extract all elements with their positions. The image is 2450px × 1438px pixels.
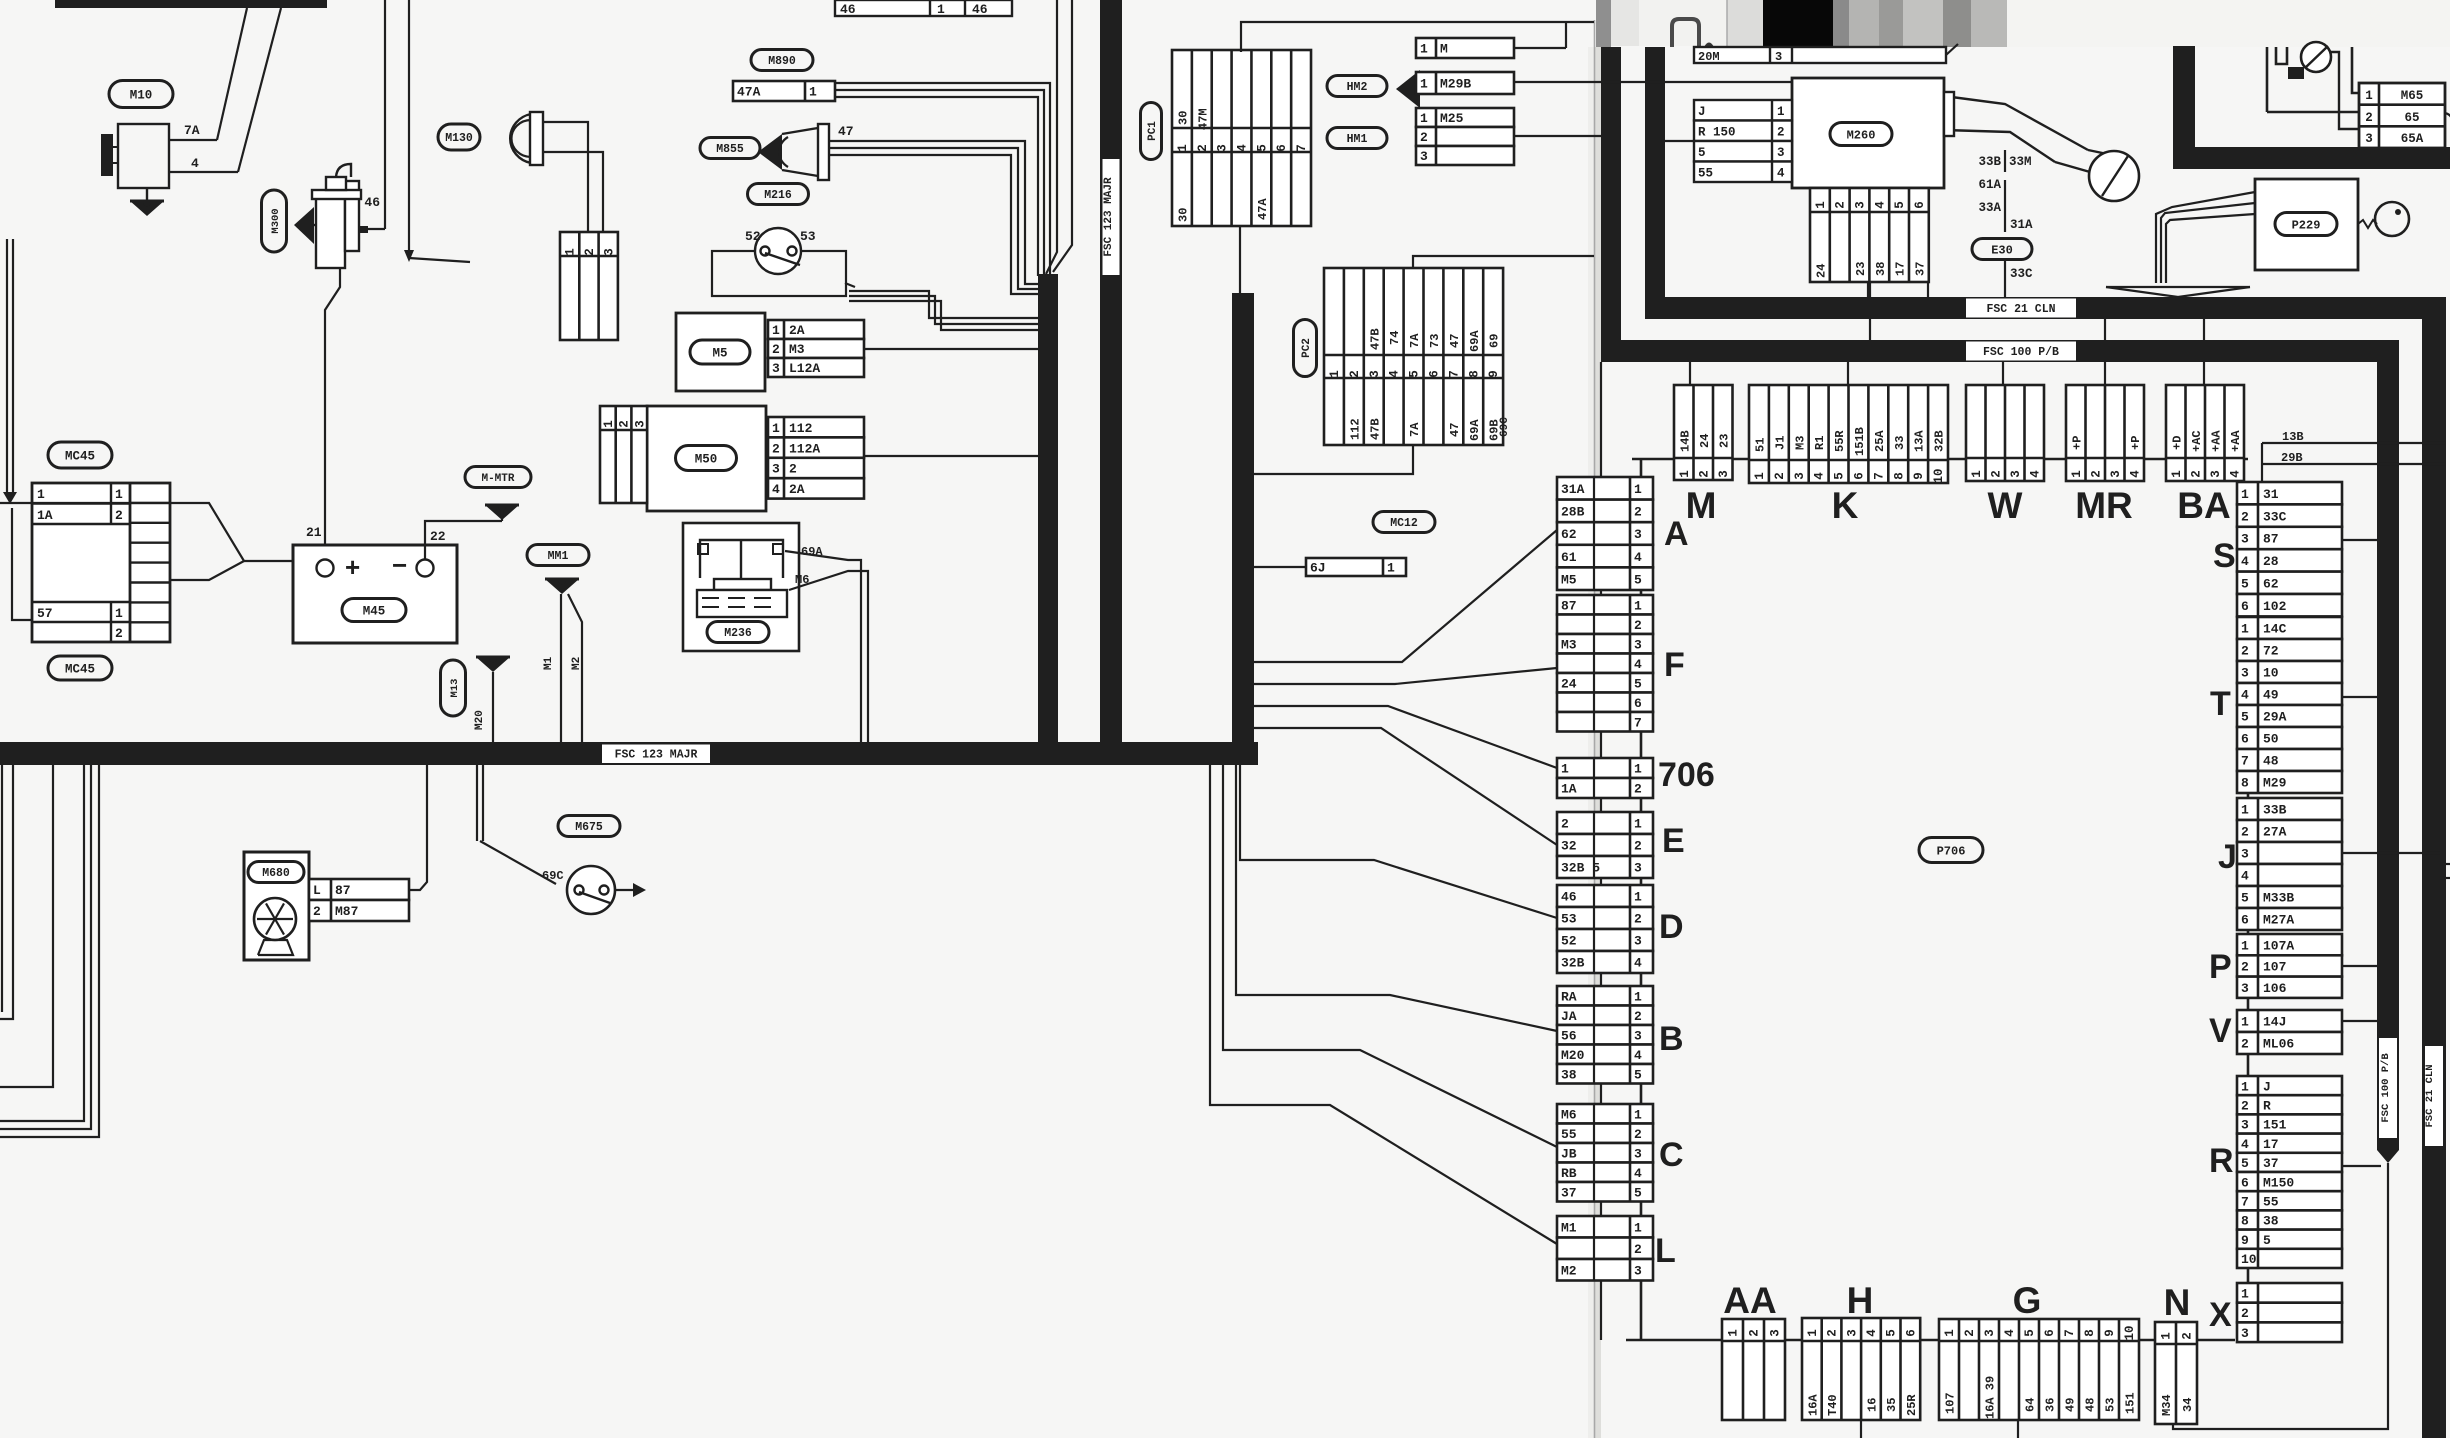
svg-text:4: 4 [2241, 869, 2249, 884]
svg-text:R: R [2263, 1098, 2271, 1113]
svg-text:J: J [2218, 838, 2237, 876]
svg-text:33B: 33B [2263, 803, 2287, 818]
svg-text:1: 1 [2241, 1015, 2249, 1030]
svg-text:31A: 31A [1561, 482, 1585, 497]
svg-text:10: 10 [2263, 666, 2279, 681]
svg-text:1: 1 [1634, 1220, 1642, 1235]
svg-text:29B: 29B [2281, 451, 2303, 465]
svg-text:1: 1 [2160, 1332, 2174, 1340]
svg-text:4: 4 [1777, 166, 1785, 180]
svg-text:4: 4 [1634, 550, 1642, 565]
svg-text:M5: M5 [712, 347, 727, 361]
svg-text:55: 55 [1561, 1127, 1577, 1142]
svg-text:R: R [2209, 1142, 2234, 1180]
svg-text:3: 3 [1216, 144, 1230, 152]
svg-text:151: 151 [2263, 1118, 2287, 1133]
svg-text:5: 5 [1634, 676, 1642, 691]
svg-text:61: 61 [1561, 550, 1577, 565]
svg-text:P: P [2209, 948, 2232, 986]
svg-text:55R: 55R [1833, 430, 1847, 452]
svg-text:6: 6 [2241, 732, 2249, 747]
svg-text:4: 4 [1865, 1329, 1879, 1337]
svg-text:28: 28 [2263, 554, 2279, 569]
svg-text:5: 5 [2241, 1156, 2249, 1171]
svg-text:52: 52 [1561, 934, 1577, 949]
svg-text:33: 33 [1893, 436, 1907, 450]
svg-text:M890: M890 [768, 55, 796, 68]
svg-text:N: N [2164, 1282, 2191, 1323]
svg-text:6: 6 [2241, 1175, 2249, 1190]
svg-text:4: 4 [2241, 554, 2249, 569]
svg-text:M25: M25 [1440, 111, 1464, 126]
svg-text:T: T [2210, 685, 2231, 723]
svg-text:1: 1 [1634, 989, 1642, 1004]
svg-text:M29B: M29B [1440, 77, 1471, 92]
svg-text:3: 3 [1634, 934, 1642, 949]
svg-text:4: 4 [1873, 201, 1887, 209]
svg-text:1: 1 [2241, 1287, 2249, 1302]
svg-text:X: X [2209, 1296, 2232, 1334]
svg-text:2: 2 [1834, 201, 1848, 209]
svg-text:2A: 2A [789, 323, 805, 338]
svg-text:M300: M300 [270, 208, 282, 233]
svg-text:1: 1 [1753, 472, 1767, 480]
svg-text:1: 1 [2241, 803, 2249, 818]
svg-text:7: 7 [1447, 370, 1461, 378]
svg-text:106: 106 [2263, 981, 2287, 996]
svg-text:34: 34 [2181, 1398, 2195, 1412]
svg-text:74: 74 [1388, 331, 1402, 345]
svg-text:AA: AA [1723, 1280, 1776, 1321]
svg-text:2: 2 [1348, 370, 1362, 378]
svg-text:14B: 14B [1678, 430, 1692, 452]
svg-text:5: 5 [2241, 891, 2249, 906]
svg-text:4: 4 [1634, 956, 1642, 971]
svg-text:FSC 123 MAJR: FSC 123 MAJR [1103, 177, 1115, 257]
svg-text:M1: M1 [1561, 1220, 1577, 1235]
svg-text:V: V [2209, 1012, 2232, 1050]
svg-text:8: 8 [2241, 1214, 2249, 1229]
svg-text:L: L [1655, 1232, 1676, 1270]
svg-text:2: 2 [618, 420, 632, 428]
svg-text:3: 3 [2241, 532, 2249, 547]
svg-text:6J: 6J [1310, 561, 1326, 576]
svg-text:22: 22 [430, 529, 446, 544]
svg-text:2: 2 [772, 342, 780, 357]
svg-text:4: 4 [2028, 470, 2042, 478]
svg-text:112A: 112A [789, 441, 820, 456]
svg-text:17: 17 [2263, 1137, 2279, 1152]
svg-text:5: 5 [2241, 576, 2249, 591]
svg-text:48: 48 [2263, 754, 2279, 769]
svg-text:2: 2 [2241, 509, 2249, 524]
svg-text:5: 5 [2263, 1233, 2271, 1248]
svg-text:24: 24 [1814, 264, 1828, 278]
svg-text:4: 4 [2241, 1137, 2249, 1152]
svg-text:M260: M260 [1847, 128, 1876, 142]
svg-text:4: 4 [1634, 657, 1642, 672]
svg-text:48: 48 [2084, 1398, 2098, 1412]
svg-text:2: 2 [1748, 1329, 1762, 1337]
svg-text:M45: M45 [363, 605, 386, 619]
svg-text:2: 2 [2241, 825, 2249, 840]
svg-text:P706: P706 [1937, 844, 1966, 858]
svg-text:47B: 47B [1368, 328, 1382, 350]
svg-text:3: 3 [1775, 50, 1782, 64]
svg-text:JA: JA [1561, 1009, 1577, 1024]
svg-text:2: 2 [1634, 618, 1642, 633]
svg-text:2: 2 [1634, 505, 1642, 520]
svg-text:2: 2 [1634, 1242, 1642, 1257]
svg-text:RB: RB [1561, 1166, 1577, 1181]
svg-text:3: 3 [2109, 470, 2123, 478]
svg-text:47: 47 [1448, 423, 1462, 437]
svg-text:27A: 27A [2263, 825, 2287, 840]
svg-text:M3: M3 [1561, 637, 1577, 652]
svg-text:151B: 151B [1853, 427, 1867, 456]
svg-text:2: 2 [2089, 470, 2103, 478]
svg-text:J1: J1 [1773, 436, 1787, 450]
svg-text:72: 72 [2263, 644, 2279, 659]
svg-text:3: 3 [602, 248, 616, 256]
svg-text:31A: 31A [2010, 218, 2033, 232]
svg-text:M-MTR: M-MTR [481, 473, 514, 485]
svg-text:16: 16 [1865, 1398, 1879, 1412]
svg-text:2: 2 [1634, 912, 1642, 927]
svg-text:HM2: HM2 [1347, 81, 1368, 94]
svg-text:J: J [2263, 1079, 2271, 1094]
svg-text:1: 1 [1777, 105, 1785, 119]
svg-text:M680: M680 [262, 867, 290, 880]
svg-text:1: 1 [1634, 762, 1642, 777]
svg-text:1: 1 [1678, 470, 1692, 478]
svg-text:H: H [1847, 1280, 1874, 1321]
svg-text:+D: +D [2170, 436, 2184, 450]
svg-text:1: 1 [1970, 470, 1984, 478]
svg-text:D: D [1659, 908, 1684, 946]
svg-text:53: 53 [2104, 1398, 2118, 1412]
svg-text:112: 112 [1348, 418, 1362, 440]
svg-text:M1: M1 [543, 656, 555, 670]
svg-text:2: 2 [313, 904, 321, 919]
svg-text:9: 9 [2103, 1329, 2117, 1337]
svg-text:2: 2 [1697, 470, 1711, 478]
svg-text:1: 1 [1634, 890, 1642, 905]
svg-text:1: 1 [772, 421, 780, 436]
svg-text:2: 2 [1196, 144, 1210, 152]
svg-text:4: 4 [2241, 688, 2249, 703]
svg-text:1: 1 [809, 85, 817, 100]
svg-text:3: 3 [2209, 470, 2223, 478]
svg-text:3: 3 [1634, 1028, 1642, 1043]
svg-text:3: 3 [1634, 1263, 1642, 1278]
svg-text:46: 46 [364, 195, 380, 210]
svg-text:4: 4 [2128, 470, 2142, 478]
svg-text:1: 1 [1814, 201, 1828, 209]
svg-text:M2: M2 [1561, 1263, 1577, 1278]
svg-text:3: 3 [2241, 981, 2249, 996]
svg-text:24: 24 [1561, 676, 1577, 691]
svg-text:14C: 14C [2263, 622, 2287, 637]
svg-text:4: 4 [1634, 1048, 1642, 1063]
svg-text:10: 10 [2123, 1325, 2137, 1340]
svg-text:36: 36 [2044, 1398, 2058, 1412]
svg-text:46: 46 [840, 2, 856, 17]
svg-text:4: 4 [1236, 144, 1250, 152]
svg-text:JB: JB [1561, 1146, 1577, 1161]
svg-text:7: 7 [1295, 144, 1309, 152]
svg-text:33C: 33C [2010, 267, 2033, 281]
svg-text:2: 2 [1777, 125, 1785, 139]
svg-text:50: 50 [2263, 732, 2279, 747]
svg-text:M3: M3 [1793, 436, 1807, 450]
svg-text:65: 65 [2404, 111, 2419, 125]
svg-text:1: 1 [115, 487, 123, 502]
svg-text:38: 38 [1874, 262, 1888, 276]
svg-text:R 150: R 150 [1698, 125, 1736, 139]
svg-text:M: M [1686, 485, 1717, 526]
svg-text:25R: 25R [1905, 1394, 1919, 1416]
svg-text:112: 112 [789, 421, 813, 436]
svg-text:M87: M87 [335, 904, 358, 919]
svg-text:+AA: +AA [2229, 430, 2243, 452]
svg-text:1: 1 [772, 323, 780, 338]
svg-text:E: E [1662, 822, 1685, 860]
svg-text:M13: M13 [449, 679, 461, 698]
svg-text:J: J [1698, 105, 1706, 119]
svg-text:3: 3 [1634, 861, 1642, 876]
svg-text:2: 2 [1826, 1329, 1840, 1337]
svg-text:MR: MR [2075, 485, 2133, 526]
svg-text:MC45: MC45 [65, 450, 95, 464]
svg-text:1: 1 [564, 248, 578, 256]
svg-text:7: 7 [2241, 1194, 2249, 1209]
svg-text:3: 3 [772, 462, 780, 477]
svg-text:7A: 7A [1408, 333, 1422, 348]
svg-text:62: 62 [1561, 527, 1577, 542]
svg-text:33C: 33C [2263, 509, 2287, 524]
svg-text:5: 5 [1885, 1329, 1899, 1337]
svg-text:5: 5 [1833, 472, 1847, 480]
svg-text:2: 2 [1634, 839, 1642, 854]
svg-text:2: 2 [1561, 817, 1569, 832]
svg-text:−: − [392, 550, 407, 580]
svg-text:G: G [2013, 1280, 2042, 1321]
svg-text:37: 37 [2263, 1156, 2279, 1171]
svg-text:47B: 47B [1368, 418, 1382, 440]
svg-text:1A: 1A [1561, 782, 1577, 797]
svg-text:2: 2 [1634, 782, 1642, 797]
svg-text:MM1: MM1 [548, 550, 569, 563]
svg-text:3: 3 [2241, 1118, 2249, 1133]
svg-text:1: 1 [2170, 470, 2184, 478]
svg-text:1: 1 [1420, 77, 1428, 92]
svg-text:3: 3 [1420, 149, 1428, 164]
svg-text:38: 38 [2263, 1214, 2279, 1229]
svg-text:2: 2 [115, 626, 123, 641]
svg-text:13B: 13B [2282, 430, 2304, 444]
svg-text:6: 6 [2043, 1329, 2057, 1337]
svg-text:9: 9 [1912, 472, 1926, 480]
svg-text:M65: M65 [2401, 89, 2424, 103]
svg-text:FSC 100 P/B: FSC 100 P/B [2380, 1053, 2392, 1123]
svg-text:2: 2 [789, 462, 797, 477]
svg-text:3: 3 [1793, 472, 1807, 480]
svg-text:M10: M10 [130, 89, 153, 103]
svg-text:9: 9 [1487, 370, 1501, 378]
svg-text:69A: 69A [1468, 419, 1482, 441]
svg-text:3: 3 [2241, 847, 2249, 862]
svg-text:M29: M29 [2263, 776, 2287, 791]
svg-text:3: 3 [1368, 370, 1382, 378]
svg-text:+AA: +AA [2209, 430, 2223, 452]
svg-text:BA: BA [2177, 485, 2230, 526]
svg-text:3: 3 [2241, 666, 2249, 681]
svg-text:3: 3 [1717, 470, 1731, 478]
svg-text:3: 3 [2241, 1326, 2249, 1341]
svg-text:47M: 47M [1196, 108, 1210, 130]
svg-text:M236: M236 [724, 627, 752, 640]
svg-text:1: 1 [1943, 1329, 1957, 1337]
svg-text:M5: M5 [1561, 572, 1577, 587]
svg-text:2: 2 [115, 508, 123, 523]
svg-text:13A: 13A [1913, 430, 1927, 452]
svg-text:8: 8 [1892, 472, 1906, 480]
svg-text:1: 1 [37, 487, 45, 502]
svg-text:2: 2 [2365, 111, 2373, 125]
svg-text:2: 2 [2181, 1332, 2195, 1340]
svg-text:51: 51 [1753, 438, 1767, 452]
svg-text:1: 1 [2241, 1079, 2249, 1094]
svg-text:7: 7 [2063, 1329, 2077, 1337]
svg-text:87: 87 [335, 883, 351, 898]
svg-text:87: 87 [2263, 532, 2279, 547]
svg-text:1: 1 [1420, 111, 1428, 126]
svg-text:5: 5 [2241, 710, 2249, 725]
svg-text:2: 2 [1634, 1009, 1642, 1024]
svg-text:29A: 29A [2263, 710, 2287, 725]
svg-text:M33B: M33B [2263, 891, 2294, 906]
svg-text:MC12: MC12 [1390, 517, 1418, 530]
svg-text:2: 2 [2189, 470, 2203, 478]
svg-text:5: 5 [2023, 1329, 2037, 1337]
svg-text:2: 2 [772, 441, 780, 456]
svg-text:1: 1 [1420, 42, 1428, 57]
svg-text:3: 3 [633, 420, 647, 428]
svg-text:ML06: ML06 [2263, 1037, 2294, 1052]
svg-text:PC1: PC1 [1147, 121, 1159, 141]
svg-text:1: 1 [1727, 1329, 1741, 1337]
svg-text:5: 5 [1893, 201, 1907, 209]
svg-text:5: 5 [1698, 146, 1706, 160]
svg-text:M216: M216 [764, 189, 792, 202]
svg-text:5: 5 [1634, 1067, 1642, 1082]
svg-text:M27A: M27A [2263, 913, 2294, 928]
svg-text:1: 1 [2365, 89, 2373, 103]
svg-text:+AC: +AC [2190, 430, 2204, 452]
svg-text:C: C [1659, 1136, 1684, 1174]
svg-text:3: 3 [1769, 1329, 1783, 1337]
svg-text:3: 3 [1634, 527, 1642, 542]
svg-text:32B: 32B [1933, 430, 1947, 452]
svg-text:1A: 1A [37, 508, 53, 523]
svg-text:2: 2 [2241, 1037, 2249, 1052]
svg-text:M3: M3 [789, 342, 805, 357]
svg-text:1: 1 [2241, 938, 2249, 953]
svg-text:3: 3 [1634, 637, 1642, 652]
svg-text:3: 3 [1777, 146, 1785, 160]
svg-text:73: 73 [1428, 334, 1442, 348]
svg-text:+: + [345, 552, 360, 582]
svg-text:55: 55 [2263, 1194, 2279, 1209]
svg-text:46: 46 [972, 2, 988, 17]
svg-text:7: 7 [1872, 472, 1886, 480]
svg-text:L12A: L12A [789, 361, 820, 376]
svg-text:1: 1 [1634, 817, 1642, 832]
svg-text:5: 5 [1634, 1185, 1642, 1200]
svg-text:69C: 69C [1499, 417, 1511, 437]
svg-text:4: 4 [2003, 1329, 2017, 1337]
svg-text:49: 49 [2064, 1398, 2078, 1412]
svg-text:2: 2 [2241, 960, 2249, 975]
svg-text:31: 31 [2263, 487, 2279, 502]
svg-text:2: 2 [1773, 472, 1787, 480]
svg-text:23: 23 [1717, 434, 1731, 448]
svg-text:87: 87 [1561, 598, 1577, 613]
svg-text:20M: 20M [1698, 50, 1720, 64]
svg-text:16A 39: 16A 39 [1984, 1376, 1998, 1419]
svg-text:4: 4 [1813, 472, 1827, 480]
svg-text:55: 55 [1698, 166, 1713, 180]
svg-text:65A: 65A [2401, 132, 2424, 146]
svg-text:107: 107 [1944, 1392, 1958, 1414]
svg-text:38: 38 [1561, 1067, 1577, 1082]
svg-text:107: 107 [2263, 960, 2286, 975]
svg-text:62: 62 [2263, 576, 2279, 591]
svg-text:B: B [1659, 1020, 1684, 1058]
svg-text:1: 1 [1561, 762, 1569, 777]
svg-text:FSC 100 P/B: FSC 100 P/B [1983, 346, 2059, 359]
svg-text:30: 30 [1176, 208, 1190, 222]
svg-text:1: 1 [1634, 482, 1642, 497]
svg-text:6: 6 [1852, 472, 1866, 480]
svg-text:107A: 107A [2263, 938, 2294, 953]
svg-text:4: 4 [191, 156, 199, 171]
svg-text:PC2: PC2 [1301, 338, 1313, 358]
svg-text:5: 5 [1634, 572, 1642, 587]
svg-text:1: 1 [2241, 622, 2249, 637]
svg-text:4: 4 [772, 482, 780, 497]
svg-text:53: 53 [800, 229, 816, 244]
svg-text:FSC 21 CLN: FSC 21 CLN [2424, 1064, 2436, 1127]
svg-text:8: 8 [2083, 1329, 2097, 1337]
svg-text:6: 6 [1634, 696, 1642, 711]
svg-text:6: 6 [2241, 913, 2249, 928]
svg-text:2: 2 [1420, 130, 1428, 145]
svg-text:5: 5 [1408, 370, 1422, 378]
svg-text:10: 10 [2241, 1252, 2257, 1267]
svg-text:1: 1 [937, 2, 945, 17]
svg-text:16A: 16A [1806, 1394, 1820, 1416]
svg-text:M130: M130 [445, 132, 473, 145]
svg-text:HM1: HM1 [1347, 133, 1368, 146]
svg-text:1: 1 [1634, 1107, 1642, 1122]
svg-text:2: 2 [2241, 1098, 2249, 1113]
svg-text:2: 2 [2241, 644, 2249, 659]
svg-text:706: 706 [1658, 756, 1715, 794]
svg-text:K: K [1832, 485, 1859, 526]
svg-text:69C: 69C [542, 869, 564, 883]
